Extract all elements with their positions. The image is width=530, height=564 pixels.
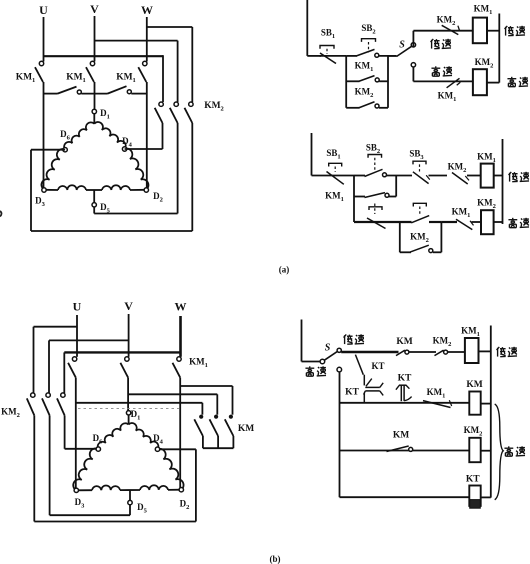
- svg-text:(a): (a): [279, 265, 290, 275]
- svg-text:U: U: [73, 300, 82, 314]
- svg-text:S: S: [325, 343, 331, 354]
- svg-text:V: V: [124, 299, 133, 313]
- svg-text:KT: KT: [371, 361, 384, 371]
- svg-text:KM: KM: [393, 431, 409, 441]
- svg-text:(b): (b): [270, 554, 281, 564]
- svg-text:KT: KT: [398, 374, 412, 384]
- svg-text:KT: KT: [466, 475, 480, 485]
- svg-text:KM: KM: [396, 337, 412, 347]
- svg-text:KM: KM: [238, 424, 254, 434]
- svg-text:S: S: [399, 40, 405, 51]
- svg-text:KM: KM: [466, 380, 482, 390]
- svg-text:KT: KT: [345, 388, 359, 398]
- svg-text:U: U: [39, 3, 48, 17]
- svg-text:W: W: [175, 300, 187, 314]
- svg-text:W: W: [141, 3, 153, 17]
- svg-text:V: V: [90, 2, 99, 16]
